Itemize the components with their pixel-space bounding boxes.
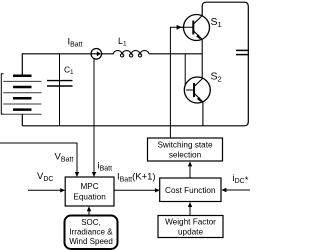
- block Switching state selection: [148, 138, 223, 161]
- wire battery bottom leg: [21, 114, 23, 126]
- wire S2 emitter to rail: [202, 102, 204, 126]
- block SOC Irradiance Wind Speed: [65, 216, 118, 250]
- wire DC link outer loop: [22, 2, 248, 126]
- svg-text:selection: selection: [169, 151, 202, 160]
- svg-text:update: update: [178, 228, 203, 237]
- battery bracket left: [1, 74, 3, 114]
- wire V_Batt tap: [0, 143, 77, 173]
- wire MPC to Cost Function: [114, 189, 156, 191]
- block Cost Function: [160, 178, 221, 202]
- wire Cost Function to Switching: [189, 166, 191, 178]
- svg-text:SOC,: SOC,: [81, 218, 101, 227]
- svg-text:MPC: MPC: [80, 182, 98, 191]
- svg-text:Weight Factor: Weight Factor: [165, 218, 216, 227]
- transistor S1: [177, 15, 210, 41]
- battery cells: [3, 76, 41, 115]
- wire I_DC* input: [226, 189, 250, 191]
- svg-text:Equation: Equation: [73, 193, 106, 202]
- block Weight Factor update: [158, 216, 223, 238]
- wire i_Batt sense line: [93, 59, 95, 173]
- svg-text:Cost Function: Cost Function: [165, 186, 216, 195]
- block MPC Equation: [65, 177, 114, 206]
- transistor S2: [184, 77, 210, 103]
- wire SOC to MPC: [88, 211, 90, 216]
- wire S2 base stub: [185, 54, 187, 90]
- wire top rail battery to switch node: [22, 54, 202, 75]
- wire S1 base drive: [170, 27, 178, 138]
- wire V_DC input: [28, 189, 61, 191]
- svg-text:Irradiance &: Irradiance &: [69, 228, 113, 237]
- svg-text:Wind Speed: Wind Speed: [69, 237, 113, 246]
- capacitor C1: [59, 54, 61, 126]
- capacitor DC link: [236, 49, 249, 51]
- inductor L1: [113, 51, 149, 54]
- current sensor circle: [91, 49, 102, 60]
- svg-text:Switching state: Switching state: [157, 141, 213, 150]
- wire switch node vertical: [201, 39, 203, 78]
- wire Weight Factor to Cost Function: [189, 207, 191, 216]
